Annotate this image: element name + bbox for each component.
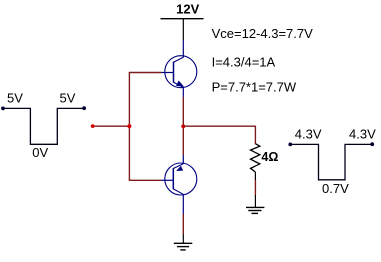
label 0.7V <box>322 181 349 196</box>
input terminal dot <box>91 124 95 128</box>
svg-text:P=7.7*1=7.7W: P=7.7*1=7.7W <box>212 80 297 95</box>
label 5V right <box>60 91 76 106</box>
annotation current <box>212 54 276 69</box>
wire Q2 collector to ground <box>182 194 184 243</box>
output waveform right terminal dot <box>370 142 374 146</box>
svg-text:Vce=12-4.3=7.7V: Vce=12-4.3=7.7V <box>212 26 314 41</box>
label 4.3V right <box>349 127 376 142</box>
svg-text:5V: 5V <box>60 91 76 106</box>
wire Q1 base (dark red) <box>129 72 161 74</box>
svg-text:4.3V: 4.3V <box>295 127 322 142</box>
input waveform right terminal dot <box>82 106 86 110</box>
junction output node <box>181 124 185 128</box>
ground under Q2 <box>174 243 193 250</box>
svg-text:0V: 0V <box>32 145 48 160</box>
label 5V left <box>7 91 23 106</box>
svg-text:4Ω: 4Ω <box>261 150 278 164</box>
wire supply to Q1 collector <box>182 19 184 58</box>
svg-text:0.7V: 0.7V <box>322 181 349 196</box>
wire Q1 emitter to output node <box>182 87 184 164</box>
transistor Q1 (NPN) <box>162 56 197 88</box>
power supply bar 12V <box>161 18 204 20</box>
wire resistor to ground <box>254 172 256 207</box>
transistor Q2 (PNP) <box>162 163 197 195</box>
resistor R1 4ohm <box>251 144 260 172</box>
annotation power <box>212 80 297 95</box>
label 4.3V left <box>295 127 322 142</box>
label 4 ohm <box>261 150 278 164</box>
wire input vertical <box>128 72 130 181</box>
output waveform left terminal dot <box>288 143 292 147</box>
ground under resistor <box>246 207 264 213</box>
label 0V <box>32 145 48 160</box>
wire Q2 base (dark red) <box>129 179 161 181</box>
wire input horizontal <box>93 125 130 127</box>
svg-text:I=4.3/4=1A: I=4.3/4=1A <box>212 54 276 69</box>
input waveform <box>3 108 84 144</box>
annotation Vce <box>212 26 314 41</box>
junction input node <box>127 124 131 128</box>
input waveform left terminal dot <box>1 107 5 111</box>
wire output to resistor <box>183 126 255 145</box>
svg-text:4.3V: 4.3V <box>349 127 376 142</box>
svg-text:5V: 5V <box>7 91 23 106</box>
output waveform <box>290 144 372 179</box>
svg-text:12V: 12V <box>176 2 199 17</box>
label 12V <box>176 2 199 17</box>
